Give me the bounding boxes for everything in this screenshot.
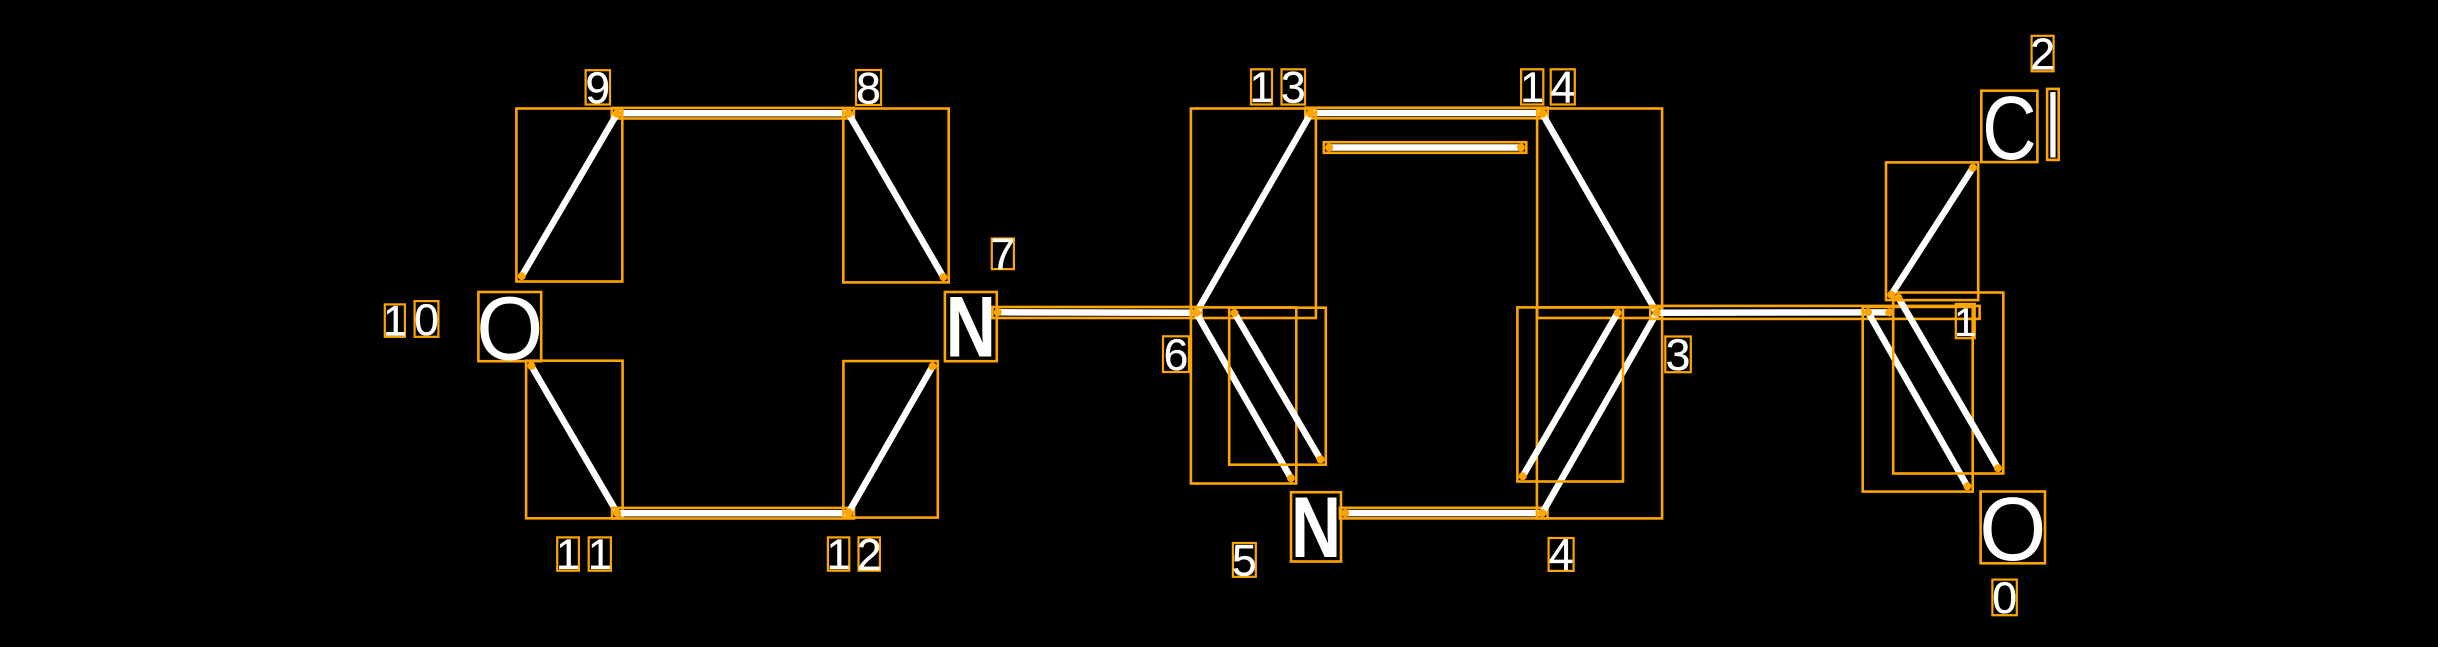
- svg-text:1: 1: [383, 298, 407, 346]
- label 1: [1954, 301, 1976, 345]
- svg-text:4: 4: [1550, 64, 1575, 113]
- label 4: [1549, 531, 1574, 580]
- atom Cl2 C: [1981, 78, 2037, 179]
- label 12 digit 1: [827, 531, 851, 579]
- label 5: [1232, 537, 1257, 586]
- bond C14-C3: [1537, 109, 1662, 319]
- bond C13-C6: [1191, 109, 1316, 319]
- svg-text:1: 1: [588, 531, 612, 579]
- bond C6=N5 inner: [1229, 308, 1326, 465]
- label 2: [2030, 30, 2055, 79]
- label 14 digit 4: [1550, 64, 1575, 113]
- label 10 digit 1: [383, 298, 407, 346]
- label 9: [585, 64, 610, 113]
- bond C1-Cl2: [1886, 162, 1978, 300]
- bond C13-C14 main: [1305, 108, 1547, 119]
- svg-text:N: N: [946, 279, 996, 376]
- svg-text:7: 7: [990, 231, 1015, 280]
- bond C4-C3 main: [1537, 307, 1662, 518]
- bond C1=O0 line a: [1863, 307, 1973, 492]
- bond C1=O0 line b: [1893, 293, 2003, 474]
- svg-text:1: 1: [1250, 64, 1274, 112]
- svg-text:1: 1: [1520, 64, 1544, 112]
- label 11 digit 1b: [588, 531, 612, 579]
- bond C9-C8: [612, 108, 854, 119]
- svg-text:4: 4: [1549, 531, 1574, 580]
- svg-text:2: 2: [857, 531, 882, 580]
- label 3: [1665, 331, 1691, 380]
- svg-text:0: 0: [1992, 574, 2017, 623]
- bond C4=C3 inner: [1517, 307, 1623, 481]
- label 13 digit 3: [1281, 64, 1306, 113]
- svg-text:C: C: [1982, 78, 2036, 179]
- svg-text:6: 6: [1164, 331, 1189, 380]
- svg-text:2: 2: [2030, 30, 2055, 79]
- bond C12-N7: [843, 361, 937, 517]
- bond C13=C14 inner: [1324, 142, 1527, 153]
- label 10 digit 0: [414, 296, 439, 345]
- label 12 digit 2: [857, 531, 882, 580]
- label 11 digit 1a: [556, 531, 580, 579]
- bond C8-N7: [843, 109, 948, 283]
- atom N7: [945, 279, 997, 376]
- svg-text:8: 8: [856, 64, 881, 113]
- svg-text:O: O: [476, 278, 543, 379]
- label 0: [1992, 574, 2017, 623]
- bond C11-C12: [612, 508, 854, 519]
- svg-text:0: 0: [414, 296, 439, 345]
- svg-text:9: 9: [585, 64, 610, 113]
- bond C6-N5 main: [1191, 307, 1296, 483]
- svg-text:N: N: [1291, 479, 1341, 576]
- svg-text:O: O: [1979, 478, 2046, 579]
- label 13 digit 1: [1250, 64, 1274, 112]
- label 14 digit 1: [1520, 64, 1544, 112]
- bond C3-C1: [1650, 306, 1979, 319]
- svg-text:1: 1: [827, 531, 851, 579]
- bond O10-C11: [526, 361, 623, 519]
- atom O0: [1979, 478, 2046, 579]
- bond N7-C6: [993, 307, 1202, 318]
- label 6: [1163, 331, 1189, 380]
- svg-text:3: 3: [1666, 331, 1691, 380]
- bond C9-O10: [516, 109, 622, 282]
- atom Cl2 l: [2047, 89, 2059, 160]
- svg-text:1: 1: [556, 531, 580, 579]
- bond N5-C4: [1340, 508, 1548, 519]
- atom N5: [1291, 479, 1341, 576]
- svg-text:1: 1: [1954, 301, 1976, 345]
- label 7: [990, 231, 1015, 280]
- atom O10: [476, 278, 543, 379]
- label 8: [856, 64, 881, 113]
- svg-text:3: 3: [1281, 64, 1306, 113]
- svg-text:5: 5: [1232, 537, 1257, 586]
